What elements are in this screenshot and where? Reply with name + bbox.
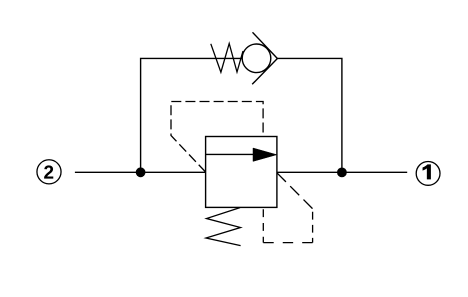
junction dot left bbox=[136, 167, 146, 177]
wire: check valve seat to top-right corner and right riser bbox=[277, 58, 342, 172]
pilot line (dashed, right vertical of bottom loop) bbox=[312, 209, 314, 243]
valve spring (below body) bbox=[206, 208, 241, 246]
wire: main line right (valve body to port 1) bbox=[277, 171, 407, 173]
wire: left riser and top run to check valve ball bbox=[141, 58, 243, 172]
port 1 label bbox=[423, 164, 431, 179]
port 2 circle bbox=[37, 160, 61, 184]
internal flow path arrowhead bbox=[253, 148, 277, 161]
pilot line (dashed, bottom run of bottom loop) bbox=[263, 242, 312, 244]
pilot line (dashed, port 2 side over the top to body top) bbox=[171, 102, 263, 173]
pilot line (dashed, left vertical of bottom loop to body bottom) bbox=[262, 207, 264, 242]
port 1 circle bbox=[416, 162, 440, 186]
valve body U1 (square envelope) bbox=[206, 137, 277, 208]
port 2 label bbox=[44, 165, 53, 178]
junction dot right bbox=[337, 168, 347, 178]
check valve ball bbox=[242, 44, 271, 73]
check valve spring (zigzag on top branch) bbox=[211, 44, 243, 73]
internal flow path line bbox=[206, 153, 255, 155]
check valve seat bbox=[252, 32, 277, 84]
pilot line (dashed diagonal from body right edge down) bbox=[277, 173, 313, 209]
wire: main line left (port 2 to valve body) bbox=[75, 171, 206, 173]
